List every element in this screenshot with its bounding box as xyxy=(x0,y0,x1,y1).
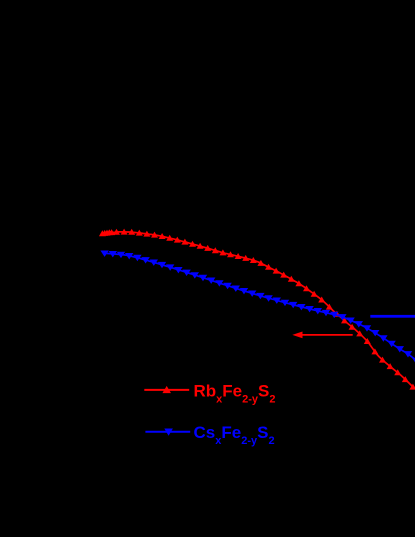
blue curve down-triangle markers xyxy=(100,251,415,365)
red curve line Rb_xFe_2-yS_2 xyxy=(101,232,415,389)
legend red line xyxy=(144,389,189,391)
blue right-axis pointer bar xyxy=(370,315,415,318)
legend red up-triangle xyxy=(162,386,171,393)
blue curve line Cs_xFe_2-yS_2 xyxy=(104,253,414,358)
red left-pointing arrow tail xyxy=(300,334,353,336)
red left-pointing arrowhead xyxy=(292,332,302,339)
legend blue line xyxy=(145,431,190,433)
legend blue down-triangle xyxy=(164,429,173,436)
red curve up-triangle markers xyxy=(99,229,415,390)
